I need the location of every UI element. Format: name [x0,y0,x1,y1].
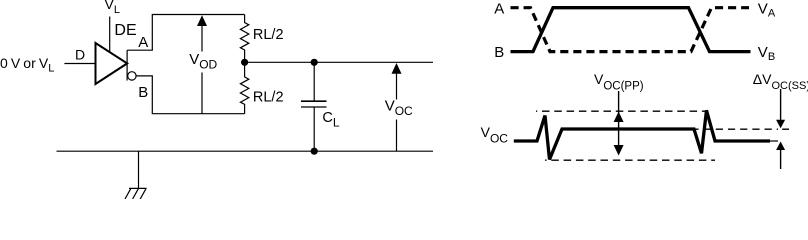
junction dot: capacitor bottom [311,148,318,155]
resistor R1 RL/2 top [240,15,283,60]
svg-text:RL/2: RL/2 [253,89,284,105]
resistor R2 RL/2 bottom [240,66,283,114]
arrow dVOC(SS) down [776,89,785,128]
svg-text:A: A [138,34,148,51]
wire: VL / DE enable line [109,17,111,53]
svg-text:B: B [494,44,504,61]
node: input label "0 V or VL" [0,55,54,75]
arrow VOC measurement (left circuit) [383,63,413,151]
arrow dVOC(SS) up [776,142,785,170]
junction dot: resistor midpoint node [241,59,248,66]
wire: driver output vertical stub [126,50,128,80]
svg-text:B: B [138,84,148,101]
wire: A output to top rail [127,15,245,51]
wire: output node line [245,61,433,63]
waveform trace A (dashed) [511,8,750,52]
dashed upper limit line [536,110,705,112]
svg-text:A: A [494,1,504,18]
arrow VOD measurement [187,15,218,114]
dashed lower limit line [545,159,715,161]
inverter bubble on B output [128,72,136,80]
svg-text:D: D [75,47,85,63]
svg-text:DE: DE [114,22,136,39]
wire: VOC settled thin extension [770,140,778,142]
junction dot: capacitor top [311,59,318,66]
op-amp U1 driver triangle [96,43,128,84]
wire: B output to bottom of load [136,76,245,114]
wire: dash piece right of SS arrow [782,128,789,130]
capacitor CL [301,62,340,151]
arrow VOC(PP) double-headed [614,91,624,156]
ground symbol [125,151,147,199]
waveform VOC trace [514,110,770,159]
waveform trace B (solid) [511,8,751,52]
svg-text:RL/2: RL/2 [253,27,284,43]
wire: D input wire [64,63,95,65]
dashed steady-state reference line [695,128,778,130]
wire: ground rail [57,150,434,152]
